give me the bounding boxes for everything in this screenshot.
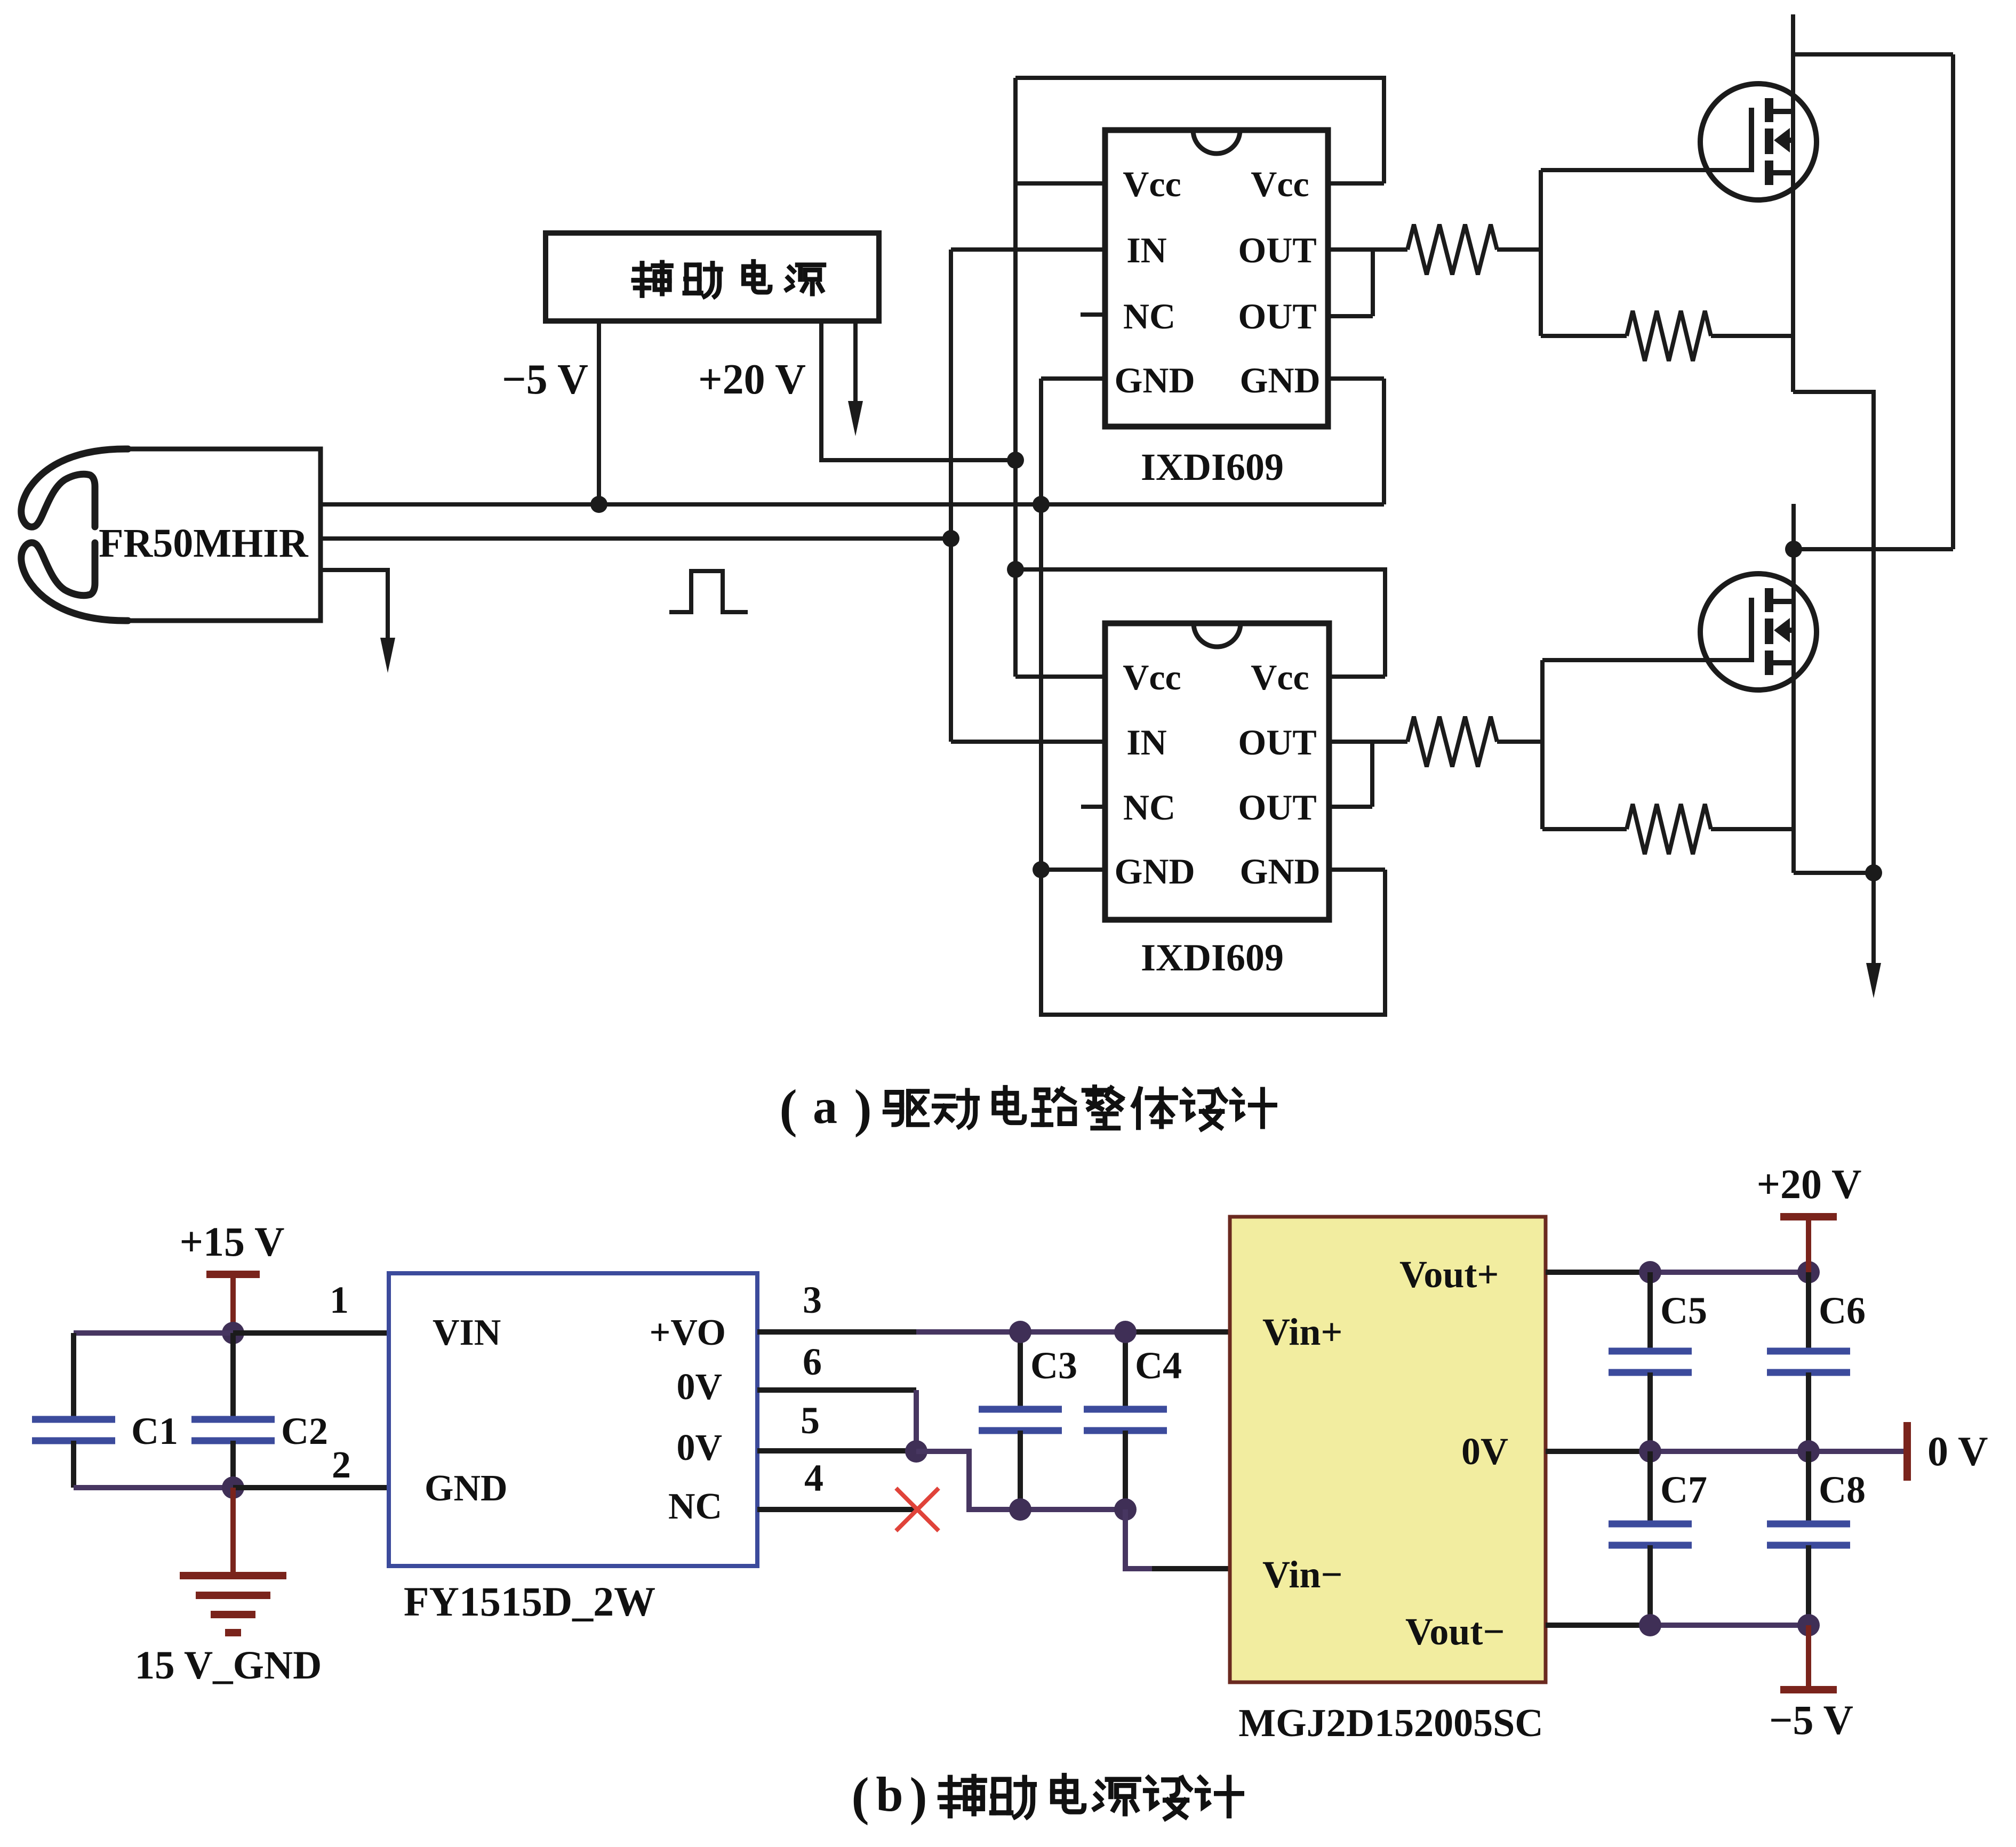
resistor R4 (gate-source) left lead bbox=[1542, 827, 1627, 831]
svg-text:3: 3 bbox=[803, 1279, 822, 1321]
junction dot VIN node bbox=[222, 1322, 244, 1344]
svg-text:NC: NC bbox=[668, 1486, 722, 1527]
junction dot GND node bbox=[222, 1476, 244, 1499]
junction dot Q2 drain bbox=[1785, 541, 1802, 558]
svg-text:1: 1 bbox=[330, 1279, 349, 1321]
svg-text:Vin−: Vin− bbox=[1262, 1553, 1342, 1596]
junction dot C5 top bbox=[1639, 1261, 1661, 1283]
svg-text:0V: 0V bbox=[1461, 1430, 1508, 1473]
MOSFET Q1 bbox=[1700, 84, 1817, 200]
svg-text:OUT: OUT bbox=[1238, 787, 1316, 828]
svg-text:5: 5 bbox=[801, 1399, 820, 1442]
svg-text:C3: C3 bbox=[1030, 1344, 1077, 1387]
fiber receiver FR50MHIR body bbox=[21, 449, 321, 621]
svg-text:Vout−: Vout− bbox=[1405, 1610, 1505, 1653]
svg-text:C8: C8 bbox=[1819, 1468, 1866, 1511]
Q1 source jog bbox=[1793, 392, 1874, 873]
junction dot C7 top bbox=[1639, 1440, 1661, 1463]
IC U1 OUT pins connector bbox=[1371, 250, 1375, 316]
junction dot C3 bottom bbox=[1009, 1498, 1031, 1521]
svg-text:b: b bbox=[876, 1767, 903, 1821]
wire C (FR50MHIR down lead) bbox=[321, 570, 388, 572]
svg-text:NC: NC bbox=[1123, 787, 1175, 828]
IC U1 lower GND loop bbox=[1039, 379, 1043, 504]
wire 0V row bbox=[1546, 1449, 1650, 1454]
IC U2 pin GND left wire bbox=[1041, 868, 1105, 872]
IC U2 pin OUT upper wire bbox=[1329, 740, 1407, 744]
IC U2 pin IN wire bbox=[951, 740, 1105, 744]
capacitor C8 bbox=[1806, 1451, 1811, 1524]
DCDC module MGJ2D152005SC box bbox=[1230, 1217, 1546, 1682]
svg-text:FY1515D_2W: FY1515D_2W bbox=[404, 1578, 655, 1625]
svg-text:Vcc: Vcc bbox=[1123, 164, 1181, 204]
svg-text:IXDI609: IXDI609 bbox=[1141, 936, 1284, 979]
svg-text:6: 6 bbox=[803, 1340, 822, 1383]
svg-text:Vout+: Vout+ bbox=[1399, 1253, 1499, 1296]
wire left branch bottom bbox=[74, 1485, 233, 1490]
svg-text:0V: 0V bbox=[676, 1427, 722, 1468]
junction dot Vcc bus / IC2 loop bbox=[1007, 561, 1024, 578]
IC U1 pin OUT upper wire bbox=[1328, 247, 1407, 252]
svg-text:2: 2 bbox=[332, 1443, 351, 1486]
IC U1 pin IN wire bbox=[951, 247, 1105, 252]
auxiliary power box 辅助电源 bbox=[546, 233, 879, 321]
resistor R1 (gate series) lead bbox=[1497, 247, 1541, 252]
svg-text:−5 V: −5 V bbox=[502, 356, 588, 403]
right vertical (drain link) bbox=[1951, 54, 1955, 549]
IC U1 top Vcc loop bbox=[1015, 78, 1384, 183]
+20V power symbol bbox=[1806, 1217, 1811, 1272]
IN bus vertical bbox=[949, 250, 953, 742]
+15V power symbol bbox=[206, 1271, 260, 1278]
IC U2 notch bbox=[1194, 623, 1241, 647]
wire Vout+ bbox=[1546, 1270, 1650, 1275]
svg-text:GND: GND bbox=[425, 1468, 508, 1509]
junction dot +20V / Vcc bus bbox=[1007, 452, 1024, 469]
resistor R2 right lead bbox=[1711, 334, 1793, 338]
0V rail symbol bbox=[1903, 1422, 1911, 1481]
junction dot C3 top bbox=[1009, 1321, 1031, 1343]
junction dot C7 bottom bbox=[1639, 1614, 1661, 1636]
top rail from Q1 drain bbox=[1793, 52, 1953, 57]
IC U1 pin Vcc left wire bbox=[1015, 181, 1105, 186]
capacitor C1 bbox=[71, 1333, 76, 1419]
resistor R4 right lead bbox=[1711, 827, 1794, 831]
label 辅助电源 bbox=[634, 262, 671, 295]
svg-text:OUT: OUT bbox=[1238, 722, 1316, 762]
svg-text:): ) bbox=[909, 1766, 927, 1826]
IC U2 OUT pins connector bbox=[1370, 742, 1374, 807]
svg-text:(: ( bbox=[851, 1766, 869, 1826]
capacitor C6 bbox=[1806, 1272, 1811, 1351]
Q2 source link bbox=[1794, 871, 1874, 875]
svg-text:GND: GND bbox=[1239, 360, 1320, 400]
wire pin6 bbox=[757, 1387, 916, 1393]
wire pin5 bbox=[757, 1448, 916, 1453]
junction dot C4 top bbox=[1114, 1321, 1137, 1343]
svg-text:OUT: OUT bbox=[1238, 230, 1316, 270]
wire left branch top bbox=[74, 1330, 233, 1336]
junction dot output node bbox=[1865, 864, 1882, 881]
svg-text:−5 V: −5 V bbox=[1769, 1697, 1853, 1743]
junction dot +20V node bbox=[1797, 1261, 1820, 1283]
svg-text:GND: GND bbox=[1114, 360, 1195, 400]
junction dot -5V node bbox=[1797, 1614, 1820, 1636]
svg-text:0V: 0V bbox=[676, 1367, 722, 1408]
DC module FY1515D_2W box bbox=[389, 1273, 757, 1566]
svg-text:4: 4 bbox=[804, 1457, 823, 1499]
svg-text:15 V_GND: 15 V_GND bbox=[135, 1643, 322, 1688]
Q2 drain horizontal link bbox=[1794, 547, 1953, 551]
wire A (upper output of FR50MHIR to GND loop) bbox=[321, 502, 1384, 507]
svg-text:a: a bbox=[813, 1079, 837, 1134]
svg-text:Vin+: Vin+ bbox=[1262, 1311, 1342, 1353]
wire Vin- bbox=[1125, 1509, 1230, 1569]
capacitor C3 bbox=[1018, 1332, 1023, 1409]
svg-text:C5: C5 bbox=[1660, 1289, 1707, 1332]
IC U1 pin OUT lower wire bbox=[1328, 314, 1373, 318]
resistor R4 zigzag bbox=[1627, 804, 1711, 854]
IC U2 pin GND right wire bbox=[1329, 868, 1385, 872]
gate wire M2 bbox=[1542, 658, 1751, 662]
svg-text:C2: C2 bbox=[281, 1410, 328, 1452]
junction dot pin5/pin6 bbox=[905, 1440, 927, 1463]
resistor R1 zigzag bbox=[1407, 224, 1497, 275]
junction dot C8 top bbox=[1797, 1440, 1820, 1463]
IC U2 IXDI609 box bbox=[1105, 623, 1329, 920]
svg-text:MGJ2D152005SC: MGJ2D152005SC bbox=[1238, 1701, 1543, 1745]
svg-text:C7: C7 bbox=[1660, 1468, 1707, 1511]
svg-text:FR50MHIR: FR50MHIR bbox=[99, 521, 309, 566]
svg-text:): ) bbox=[854, 1079, 871, 1138]
IC U1 notch bbox=[1193, 130, 1240, 154]
output arrow bbox=[1871, 873, 1876, 966]
IC U2 top Vcc loop bbox=[1015, 569, 1385, 677]
arrow on wire C bbox=[386, 570, 390, 641]
IC U1 IXDI609 box bbox=[1105, 130, 1328, 427]
Vcc bus vertical (+20V) bbox=[1013, 78, 1018, 677]
svg-text:VIN: VIN bbox=[433, 1312, 501, 1353]
gate node vertical M1 bbox=[1539, 170, 1543, 336]
svg-text:+20 V: +20 V bbox=[698, 356, 806, 403]
GND bus vertical bbox=[1039, 379, 1043, 1015]
wire pin3 purple segment bbox=[916, 1329, 1125, 1335]
svg-text:NC: NC bbox=[1123, 296, 1175, 336]
svg-text:IN: IN bbox=[1126, 722, 1167, 762]
gate wire M1 bbox=[1541, 168, 1751, 172]
resistor R3 zigzag bbox=[1407, 717, 1497, 767]
wire pin3 to Vin+ bbox=[1125, 1329, 1230, 1335]
wire pin1 VIN bbox=[233, 1330, 389, 1336]
Q1 drain/source vertical bbox=[1791, 14, 1795, 392]
wire B (signal output of FR50MHIR to IN bus) bbox=[321, 536, 951, 541]
IC U2 pin Vcc right wire bbox=[1329, 674, 1385, 679]
junction dot wire A / -5V bbox=[590, 496, 607, 513]
gate node vertical M2 bbox=[1540, 660, 1545, 829]
IC U2 lower GND loop bbox=[1041, 870, 1385, 1015]
svg-text:GND: GND bbox=[1239, 851, 1320, 892]
resistor R2 (gate-source) left lead bbox=[1541, 334, 1627, 338]
purple net 0V path bbox=[916, 1451, 1125, 1509]
svg-text:(: ( bbox=[779, 1079, 797, 1138]
svg-text:C6: C6 bbox=[1819, 1289, 1866, 1332]
svg-text:GND: GND bbox=[1114, 851, 1195, 892]
IC U2 pin NC stub bbox=[1081, 805, 1105, 809]
capacitor C5 bbox=[1647, 1272, 1653, 1351]
Q2 drain/source vertical bbox=[1791, 504, 1796, 873]
wire -5V from aux box bbox=[597, 321, 601, 504]
svg-text:Vcc: Vcc bbox=[1123, 657, 1181, 697]
svg-text:Vcc: Vcc bbox=[1251, 657, 1309, 697]
capacitor C4 bbox=[1123, 1332, 1128, 1409]
wire pin4 NC bbox=[757, 1507, 917, 1512]
no-connect X mark bbox=[896, 1488, 939, 1531]
svg-text:IN: IN bbox=[1126, 230, 1167, 270]
svg-text:OUT: OUT bbox=[1238, 296, 1316, 336]
wire +20V from aux box bbox=[821, 321, 1015, 460]
svg-text:+20 V: +20 V bbox=[1757, 1161, 1862, 1207]
svg-text:+15 V: +15 V bbox=[180, 1218, 285, 1265]
svg-text:0 V: 0 V bbox=[1927, 1428, 1988, 1474]
MOSFET Q2 bbox=[1700, 574, 1817, 690]
IC U1 pin Vcc right wire bbox=[1328, 181, 1384, 186]
-5V power symbol bbox=[1806, 1625, 1811, 1690]
IC U1 pin GND right wire bbox=[1328, 376, 1384, 381]
resistor R2 zigzag bbox=[1627, 311, 1711, 361]
IC U1 pin NC stub bbox=[1081, 312, 1105, 317]
capacitor C2 bbox=[230, 1333, 236, 1419]
junction dot GND bus / IC2 GND bbox=[1033, 861, 1050, 878]
svg-text:C1: C1 bbox=[131, 1410, 178, 1452]
svg-text:C4: C4 bbox=[1135, 1344, 1182, 1387]
svg-text:Vcc: Vcc bbox=[1251, 164, 1309, 204]
junction dot wire B / IN bus bbox=[942, 530, 959, 547]
IC U1 pin GND left wire bbox=[1041, 376, 1105, 381]
wire pin3 +VO bbox=[757, 1329, 917, 1335]
wire pin2 GND bbox=[233, 1485, 389, 1490]
resistor R3 (gate series) lead bbox=[1497, 740, 1542, 744]
arrow below aux box bbox=[853, 321, 858, 404]
wire pin6 down bbox=[914, 1390, 919, 1451]
IC U2 pin OUT lower wire bbox=[1329, 805, 1372, 809]
svg-text:IXDI609: IXDI609 bbox=[1141, 446, 1284, 488]
svg-text:+VO: +VO bbox=[650, 1312, 726, 1353]
IC U2 pin Vcc left wire bbox=[1015, 674, 1105, 679]
pulse waveform symbol bbox=[669, 571, 748, 612]
wire Vout- row bbox=[1546, 1623, 1650, 1628]
junction dot C4 bottom bbox=[1114, 1498, 1137, 1521]
junction dot wire A / GND bus bbox=[1033, 496, 1050, 513]
ground symbol 15V_GND bbox=[180, 1488, 286, 1633]
capacitor C7 bbox=[1647, 1451, 1653, 1524]
